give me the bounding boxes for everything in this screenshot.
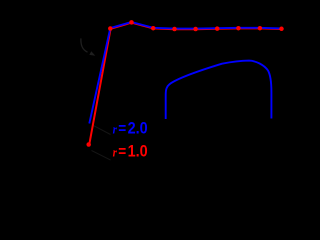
svg-text:=: = [118, 144, 126, 161]
blue dome curve [166, 61, 272, 119]
legend label r=1.0 (red) [113, 142, 148, 160]
svg-text:r: r [113, 121, 118, 136]
blue series line r=2.0 [89, 22, 281, 124]
svg-text:1.0: 1.0 [128, 142, 148, 160]
red circle markers [86, 20, 283, 147]
legend label r=2.0 (blue) [113, 119, 148, 137]
leader line to red legend label [92, 151, 111, 161]
curved annotation arrow [81, 38, 95, 55]
leader line to blue legend label [93, 125, 111, 134]
svg-text:=: = [118, 120, 126, 137]
svg-text:2.0: 2.0 [128, 119, 148, 137]
svg-text:r: r [113, 145, 118, 160]
red solid series r=1.0 [89, 23, 281, 145]
